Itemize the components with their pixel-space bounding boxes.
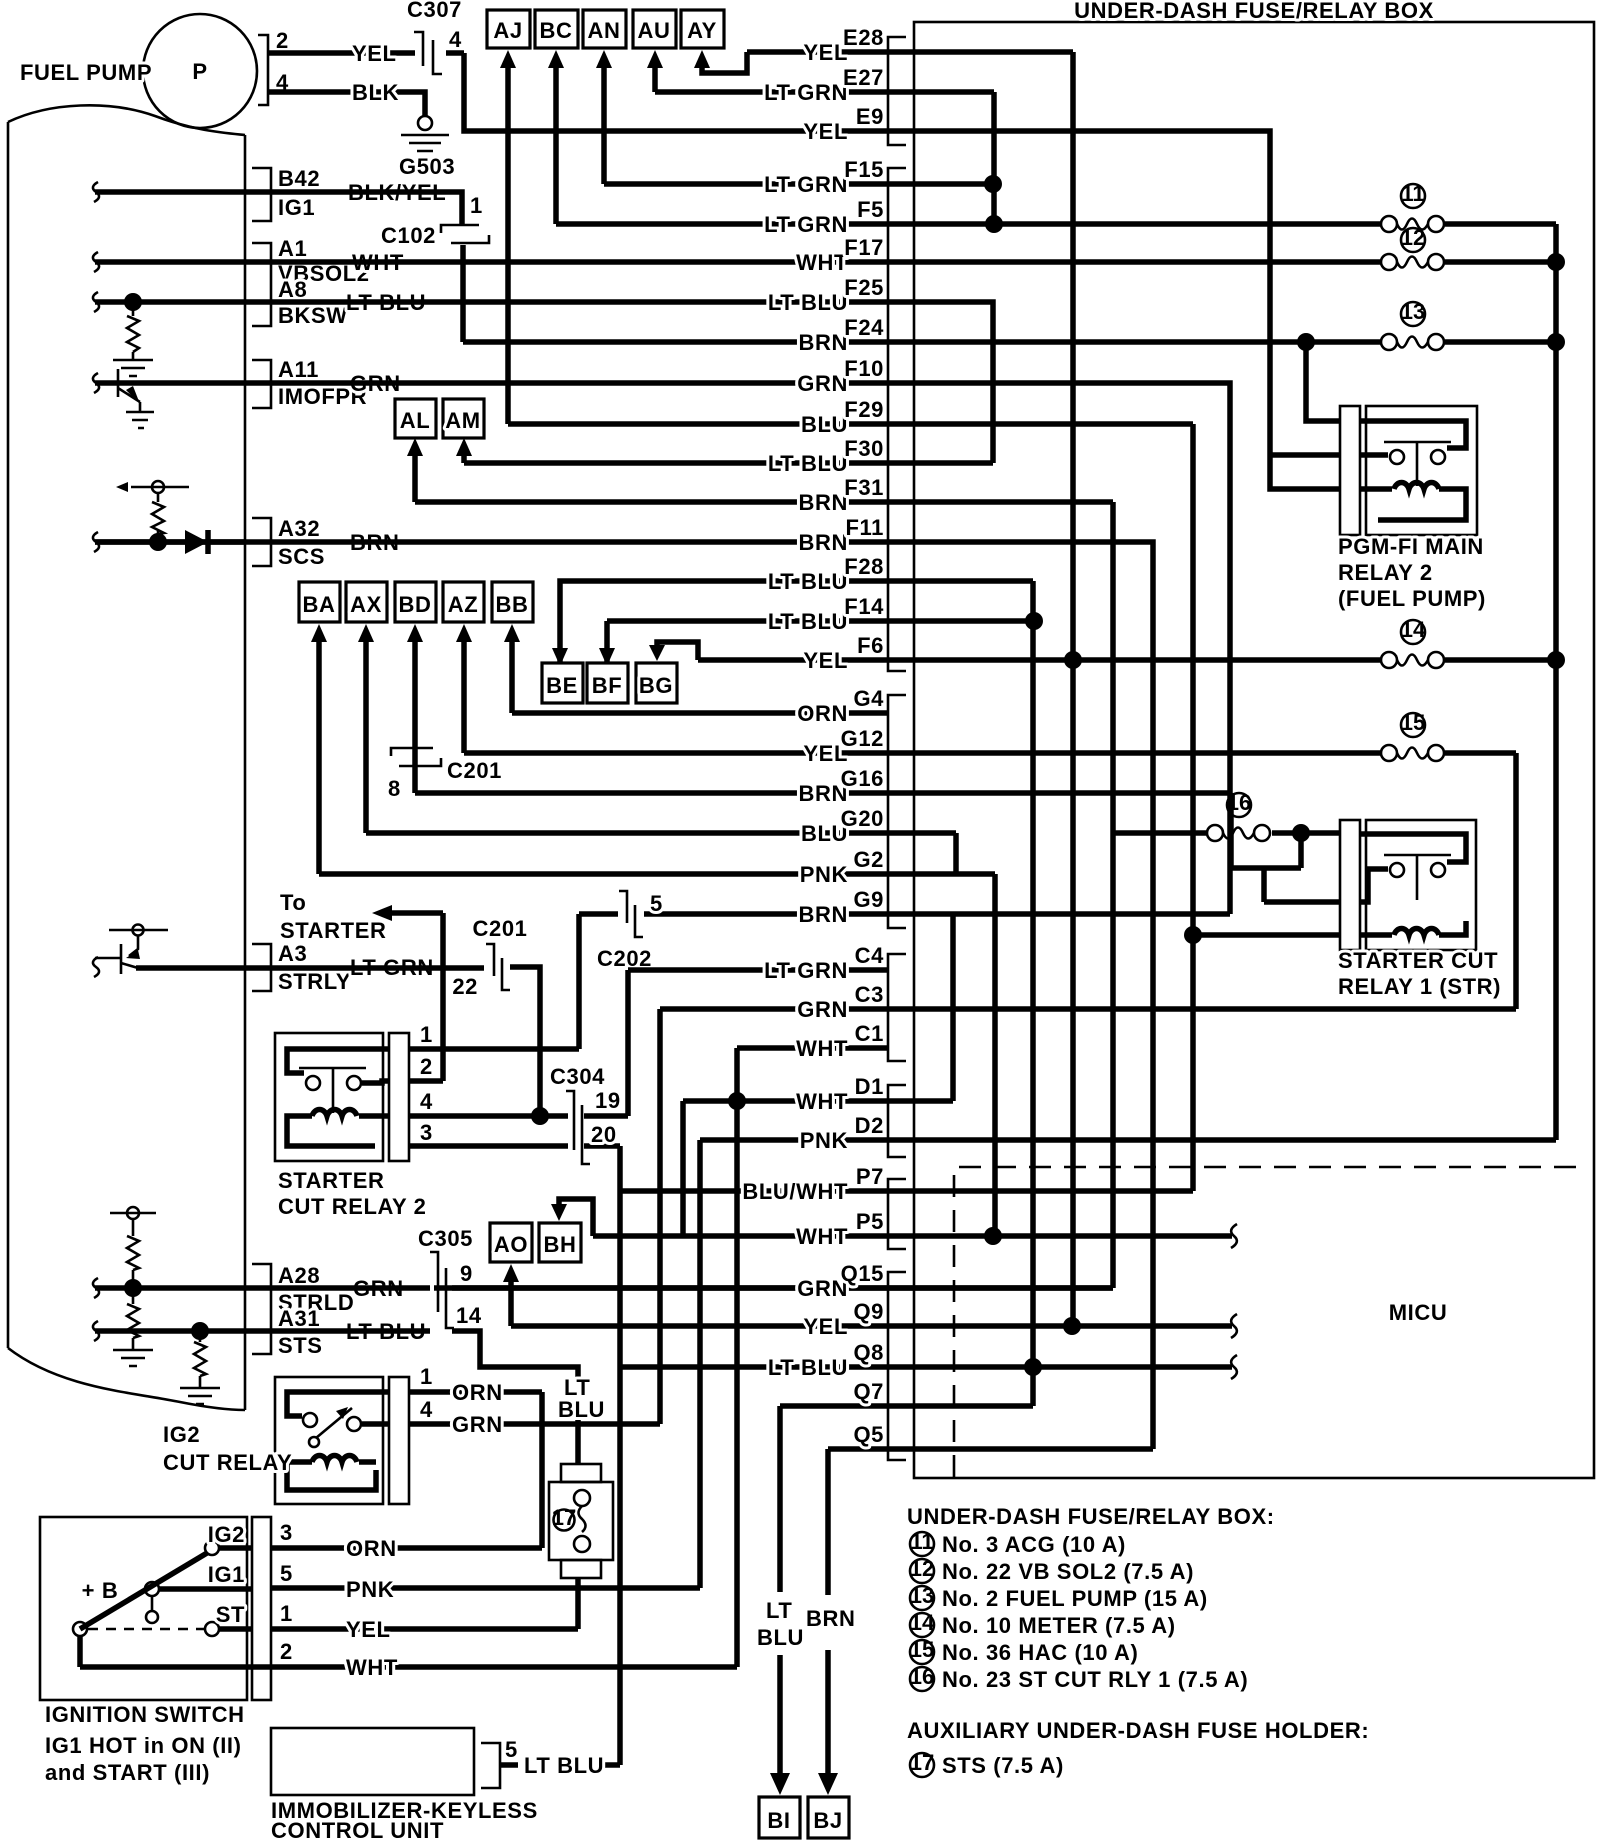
svg-text:LT BLU: LT BLU xyxy=(768,609,848,634)
wire net F24 BRN row to fuse 13 xyxy=(463,342,1548,421)
wire break mark at ECM stub xyxy=(93,252,99,272)
wire YEL fuel pump pin2 xyxy=(268,50,464,56)
svg-text:BLU: BLU xyxy=(801,412,848,437)
wire F30 row to AM arrow xyxy=(464,454,993,463)
svg-text:and START (III): and START (III) xyxy=(45,1760,210,1785)
immobilizer-keyless control unit box xyxy=(271,1728,474,1795)
svg-text:LT GRN: LT GRN xyxy=(764,212,848,237)
svg-text:GRN: GRN xyxy=(452,1412,503,1437)
svg-text:1: 1 xyxy=(280,1601,293,1626)
svg-text:G12: G12 xyxy=(841,726,884,751)
svg-text:9: 9 xyxy=(460,1261,473,1286)
svg-text:ORN: ORN xyxy=(346,1536,397,1561)
fuel pump motor circle xyxy=(143,14,257,128)
wire net C304-20 vertical to P7 and immobilizer xyxy=(596,1146,620,1765)
connector C307 xyxy=(414,32,442,74)
starter cut relay 1 connector xyxy=(1340,820,1360,950)
svg-text:STARTER CUT: STARTER CUT xyxy=(1338,948,1498,973)
resistor to ground at A31 xyxy=(194,1331,206,1388)
svg-text:GRN: GRN xyxy=(797,371,848,396)
svg-text:16: 16 xyxy=(1227,790,1251,815)
svg-text:No. 36 HAC (10 A): No. 36 HAC (10 A) xyxy=(942,1640,1138,1665)
wire net F31 to fuse16 tap to Q15 xyxy=(434,502,1207,1288)
wire net G4 ORN to BB xyxy=(512,640,888,713)
svg-text:5: 5 xyxy=(505,1737,518,1762)
svg-text:LT BLU: LT BLU xyxy=(768,290,848,315)
svg-text:F10: F10 xyxy=(844,356,884,381)
terminal box BB xyxy=(492,582,533,622)
svg-text:LT BLU: LT BLU xyxy=(768,1355,848,1380)
wire Q7 row and down to BI xyxy=(780,1406,1033,1786)
svg-text:12: 12 xyxy=(1401,225,1425,250)
arrow into BI xyxy=(770,1773,790,1795)
svg-text:BRN: BRN xyxy=(799,330,848,355)
fuse 15 No.36 HAC xyxy=(1381,745,1397,761)
starter cut relay 2 coil xyxy=(287,1109,390,1146)
wire net C4 LT GRN to C304 pin19 xyxy=(584,970,888,1116)
svg-text:P: P xyxy=(192,59,207,84)
connector bracket group G xyxy=(888,695,906,928)
wire net C3 GRN row to Q8 jog xyxy=(409,1009,1516,1424)
wire net E27 LT GRN to AU F15 F5 xyxy=(655,64,994,224)
svg-text:A28: A28 xyxy=(278,1263,320,1288)
svg-text:A8: A8 xyxy=(278,277,307,302)
svg-text:C201: C201 xyxy=(473,916,528,941)
svg-text:YEL: YEL xyxy=(803,1314,848,1339)
junction dot xyxy=(124,1279,142,1297)
connector bracket group Q xyxy=(888,1272,906,1460)
svg-text:15: 15 xyxy=(910,1637,934,1662)
svg-text:AO: AO xyxy=(494,1232,528,1257)
svg-text:No. 10 METER (7.5 A): No. 10 METER (7.5 A) xyxy=(942,1613,1176,1638)
terminal box AY xyxy=(681,10,724,48)
svg-text:LT GRN: LT GRN xyxy=(764,80,848,105)
arrow into BJ xyxy=(818,1773,838,1795)
terminal box AZ xyxy=(443,582,484,622)
svg-text:2: 2 xyxy=(276,28,289,53)
svg-text:PNK: PNK xyxy=(800,862,848,887)
fuse 12 No.22 VB SOL2 xyxy=(1381,254,1397,270)
svg-text:ST: ST xyxy=(216,1602,245,1627)
terminal box AN xyxy=(583,10,626,48)
svg-text:No. 22 VB SOL2 (7.5 A): No. 22 VB SOL2 (7.5 A) xyxy=(942,1559,1194,1584)
junction dot xyxy=(1063,1317,1081,1335)
svg-text:STS: STS xyxy=(278,1333,323,1358)
svg-text:IGNITION SWITCH: IGNITION SWITCH xyxy=(45,1702,245,1727)
svg-text:IG1: IG1 xyxy=(278,195,315,220)
svg-text:14: 14 xyxy=(1401,617,1426,642)
svg-text:No. 3 ACG (10 A): No. 3 ACG (10 A) xyxy=(942,1532,1126,1557)
IG2 cut relay box xyxy=(275,1377,383,1504)
connector C305 xyxy=(430,1252,454,1328)
svg-text:BH: BH xyxy=(544,1232,577,1257)
wire net G9 BRN via C202 to relay2 pin1 xyxy=(409,914,579,1049)
wire break mark MICU row end xyxy=(1231,1224,1237,1248)
svg-text:RELAY 1 (STR): RELAY 1 (STR) xyxy=(1338,974,1501,999)
switch resistor chain at A28 xyxy=(110,1213,156,1350)
svg-text:C3: C3 xyxy=(855,982,884,1007)
terminal box BJ xyxy=(808,1797,849,1838)
starter cut relay 2 switch xyxy=(287,1049,390,1073)
svg-text:YEL: YEL xyxy=(352,41,397,66)
svg-text:1: 1 xyxy=(470,193,483,218)
svg-text:LT GRN: LT GRN xyxy=(764,172,848,197)
svg-text:STS (7.5 A): STS (7.5 A) xyxy=(942,1753,1064,1778)
svg-text:19: 19 xyxy=(595,1088,621,1113)
svg-text:A3: A3 xyxy=(278,941,307,966)
transistor at A11 IMOFPR xyxy=(118,369,140,412)
fuse 11 No.3 ACG xyxy=(1381,216,1397,232)
svg-text:15: 15 xyxy=(1401,710,1425,735)
svg-text:BLU/WHT: BLU/WHT xyxy=(742,1179,848,1204)
svg-text:FUEL PUMP: FUEL PUMP xyxy=(20,60,152,85)
svg-text:F30: F30 xyxy=(844,436,884,461)
svg-text:F28: F28 xyxy=(844,554,884,579)
wire break mark MICU row end xyxy=(1231,1355,1237,1379)
connector C304 xyxy=(566,1091,590,1164)
svg-text:STRLY: STRLY xyxy=(278,969,351,994)
wire break mark at ECM stub xyxy=(93,292,99,312)
wire break mark at ECM stub xyxy=(93,532,99,552)
junction dot xyxy=(1064,651,1082,669)
svg-text:11: 11 xyxy=(1401,181,1424,206)
junction dot xyxy=(984,1227,1002,1245)
svg-text:LT BLU: LT BLU xyxy=(768,451,848,476)
svg-text:11: 11 xyxy=(910,1529,933,1554)
connector C202 xyxy=(619,891,643,937)
fuel pump connector bracket xyxy=(258,35,268,105)
immobilizer connector xyxy=(481,1743,500,1788)
fuse 13 No.2 FUEL PUMP xyxy=(1381,334,1397,350)
wire net F15 LT GRN to AN xyxy=(604,64,994,184)
svg-text:1: 1 xyxy=(420,1364,433,1389)
svg-text:BE: BE xyxy=(546,673,578,698)
svg-text:22: 22 xyxy=(452,974,478,999)
svg-text:C4: C4 xyxy=(855,943,884,968)
svg-text:BRN: BRN xyxy=(806,1606,855,1631)
ignition internal wires xyxy=(80,1548,252,1667)
terminal box BH xyxy=(539,1223,581,1262)
wire break mark at ECM stub xyxy=(93,182,99,202)
svg-text:MICU: MICU xyxy=(1389,1300,1448,1325)
wire net E9 YEL pump-to-PGMFI relay xyxy=(464,53,1340,489)
wire net F5 to BC fuse11 right bus D2 xyxy=(556,64,1556,1140)
svg-text:P7: P7 xyxy=(856,1164,884,1189)
svg-text:A11: A11 xyxy=(278,357,319,382)
svg-text:3: 3 xyxy=(420,1120,433,1145)
svg-text:BRN: BRN xyxy=(799,490,848,515)
svg-text:C307: C307 xyxy=(407,0,462,22)
ignition switch connector xyxy=(252,1517,271,1700)
wire net F17 WHT row A1 to fuse 12 xyxy=(95,259,1548,265)
wire Q5 down to BJ xyxy=(825,1449,831,1786)
ground G503 xyxy=(418,116,432,130)
wire BLK/YEL B42 through C102 to F24 xyxy=(95,192,463,342)
terminal box AU xyxy=(633,10,676,48)
svg-text:F5: F5 xyxy=(857,197,884,222)
starter cut relay 1 coil xyxy=(1360,921,1466,935)
terminal box BI xyxy=(759,1797,800,1838)
ECM connector edge xyxy=(244,135,247,1410)
svg-text:A1: A1 xyxy=(278,236,307,261)
svg-text:AUXILIARY UNDER-DASH FUSE HOLD: AUXILIARY UNDER-DASH FUSE HOLDER: xyxy=(907,1718,1369,1743)
svg-text:G4: G4 xyxy=(853,686,884,711)
svg-text:F6: F6 xyxy=(857,633,884,658)
svg-text:ORN: ORN xyxy=(452,1380,503,1405)
wire net F10 GRN A11 to G9 row xyxy=(95,383,1230,914)
svg-text:14: 14 xyxy=(910,1610,935,1635)
ECM pin bracket A11 xyxy=(252,360,271,408)
terminal box AJ xyxy=(487,10,530,48)
terminal box BF xyxy=(587,663,628,703)
svg-text:2: 2 xyxy=(280,1639,293,1664)
svg-text:C305: C305 xyxy=(418,1226,473,1251)
wire net G16 BRN to BD and relay1 switch xyxy=(415,640,1340,902)
svg-text:17: 17 xyxy=(552,1505,576,1530)
svg-text:UNDER-DASH FUSE/RELAY BOX:: UNDER-DASH FUSE/RELAY BOX: xyxy=(907,1504,1275,1529)
connector bracket group D xyxy=(888,1085,906,1157)
junction dot xyxy=(1292,824,1310,842)
svg-text:Q7: Q7 xyxy=(853,1379,884,1404)
svg-text:8: 8 xyxy=(388,776,401,801)
svg-text:BRN: BRN xyxy=(799,902,848,927)
svg-text:WHT: WHT xyxy=(796,1036,848,1061)
wire net E28 YEL AY elbow to F6 Q9 xyxy=(511,52,1232,1326)
svg-text:2: 2 xyxy=(420,1054,433,1079)
svg-text:SCS: SCS xyxy=(278,544,325,569)
wire relay2 pin3 BLU-WHT to C304 pin20 xyxy=(409,1143,620,1149)
terminal box AO xyxy=(490,1223,532,1262)
svg-text:PNK: PNK xyxy=(800,1128,848,1153)
ignition IG1 tap xyxy=(151,1596,154,1612)
ECM pin bracket A3 xyxy=(252,944,271,991)
svg-text:B42: B42 xyxy=(278,166,320,191)
wire net G20 BLU to AX jog G2 fuse16 xyxy=(319,640,1340,1236)
wire Q9 up to AO arrow xyxy=(508,1280,514,1326)
wire net C1 WHT to ignition WHT row xyxy=(80,1048,888,1667)
wire net G9 tap down to D1 xyxy=(683,914,953,1101)
svg-text:CUT RELAY: CUT RELAY xyxy=(163,1450,292,1475)
svg-text:AY: AY xyxy=(687,18,717,43)
ECM pin bracket A28-A31 xyxy=(252,1264,271,1354)
junction dot xyxy=(1297,333,1315,351)
svg-text:F24: F24 xyxy=(844,315,884,340)
svg-text:IG1: IG1 xyxy=(208,1562,245,1587)
svg-text:C1: C1 xyxy=(855,1021,884,1046)
wire net G12 YEL to AZ fuse15 xyxy=(464,640,1516,1009)
terminal box BA xyxy=(299,582,340,622)
svg-text:BKSW: BKSW xyxy=(278,303,348,328)
svg-text:Q15: Q15 xyxy=(841,1261,884,1286)
wire net P5 WHT row with BH elbow xyxy=(559,1199,1232,1236)
connector bracket group E xyxy=(888,37,906,145)
IG2 cut relay coil xyxy=(287,1455,376,1490)
PGM-FI relay 2 switch xyxy=(1360,421,1466,448)
connector C201 pin8 on BD wire xyxy=(391,748,441,766)
switch contact above A32 xyxy=(131,487,189,542)
svg-text:BLU: BLU xyxy=(757,1625,804,1650)
svg-text:WHT: WHT xyxy=(346,1655,398,1680)
svg-text:F29: F29 xyxy=(844,397,884,422)
wire A32 SCS row xyxy=(95,539,245,545)
svg-text:YEL: YEL xyxy=(803,648,848,673)
svg-text:WHT: WHT xyxy=(796,250,848,275)
svg-text:C304: C304 xyxy=(550,1064,605,1089)
fuse 17 STS holder xyxy=(561,1464,601,1482)
svg-text:BA: BA xyxy=(303,592,336,617)
junction dot xyxy=(531,1107,549,1125)
wire To STARTER arrow from relay2 pin2 xyxy=(390,913,443,1081)
svg-text:GRN: GRN xyxy=(797,997,848,1022)
wire immobilizer pin5 stub xyxy=(500,1762,518,1768)
terminal box BG xyxy=(636,663,677,703)
IG2 cut relay connector xyxy=(389,1377,409,1504)
svg-text:To: To xyxy=(280,890,306,915)
wire net D2 PNK to ignition PNK row xyxy=(271,1140,700,1588)
svg-text:5: 5 xyxy=(280,1561,293,1586)
wire break mark MICU row end xyxy=(1231,1314,1237,1338)
svg-text:IG2: IG2 xyxy=(208,1522,245,1547)
svg-text:5: 5 xyxy=(650,891,663,916)
svg-text:F14: F14 xyxy=(844,594,884,619)
junction dot xyxy=(191,1322,209,1340)
wire break mark at ECM stub xyxy=(93,957,99,977)
fuse 14 No.10 METER xyxy=(1381,652,1397,668)
starter cut relay 1 switch xyxy=(1360,834,1466,862)
wire net A32 F11 BRN to Q5 xyxy=(95,542,1153,1449)
terminal box AL xyxy=(395,399,436,438)
terminal box AX xyxy=(346,582,387,622)
svg-text:P5: P5 xyxy=(856,1209,884,1234)
svg-text:No. 23 ST CUT RLY 1 (7.5 A): No. 23 ST CUT RLY 1 (7.5 A) xyxy=(942,1667,1248,1692)
svg-text:F25: F25 xyxy=(844,275,884,300)
svg-text:YEL: YEL xyxy=(346,1617,391,1642)
svg-text:4: 4 xyxy=(420,1089,433,1114)
connector bracket group P xyxy=(888,1179,906,1249)
wire net A31 via C305 pin14 fuse17 to ignition YEL xyxy=(95,1331,578,1629)
ignition switch contacts xyxy=(205,1541,219,1555)
svg-text:AU: AU xyxy=(638,18,671,43)
ignition switch blade xyxy=(80,1553,207,1629)
junction dot xyxy=(985,215,1003,233)
svg-text:20: 20 xyxy=(591,1122,617,1147)
fuse 16 No.23 ST CUT RLY1 xyxy=(1207,825,1223,841)
transistor at A3 STRLY xyxy=(95,930,168,974)
svg-text:WHT: WHT xyxy=(796,1089,848,1114)
starter cut relay 1 box xyxy=(1366,820,1476,950)
svg-text:ORN: ORN xyxy=(797,701,848,726)
connector bracket group C xyxy=(888,954,906,1061)
svg-text:BF: BF xyxy=(592,673,623,698)
svg-text:F31: F31 xyxy=(844,475,884,500)
under-dash fuse/relay box outline xyxy=(914,22,1594,1478)
wire break mark at ECM stub xyxy=(93,1278,99,1298)
svg-text:AZ: AZ xyxy=(448,592,479,617)
starter cut relay 2 connector xyxy=(389,1033,409,1161)
svg-text:AM: AM xyxy=(445,408,480,433)
svg-text:14: 14 xyxy=(456,1303,482,1328)
wire net F29 BLU to AJ and P7 xyxy=(508,64,1340,1191)
svg-text:LT: LT xyxy=(766,1598,792,1623)
svg-text:A32: A32 xyxy=(278,516,320,541)
wire net A3 LT GRN via C201-22 to relay2 pin4 xyxy=(136,967,568,1116)
terminal box BE xyxy=(542,663,583,703)
PGM-FI main relay 2 box xyxy=(1366,406,1477,535)
svg-text:BJ: BJ xyxy=(813,1808,842,1833)
svg-text:G16: G16 xyxy=(841,766,884,791)
ECM pin bracket A1-A8 xyxy=(252,243,271,326)
svg-text:D2: D2 xyxy=(855,1113,884,1138)
wire net D1 down to P5 xyxy=(680,1101,686,1236)
wire net A28 GRN row via C305 pin9 to Q15 xyxy=(95,1285,1113,1291)
wire net G2 PNK to BA xyxy=(316,640,322,874)
svg-text:E27: E27 xyxy=(843,65,884,90)
ECM pin bracket B42 xyxy=(252,168,271,221)
svg-text:E9: E9 xyxy=(856,104,884,129)
svg-text:F17: F17 xyxy=(844,235,884,260)
svg-text:UNDER-DASH FUSE/RELAY BOX: UNDER-DASH FUSE/RELAY BOX xyxy=(1074,0,1434,23)
ECM housing outline xyxy=(8,105,245,1410)
wire IG2 relay pin1 ORN to ignition ORN row xyxy=(271,1392,542,1548)
svg-text:4: 4 xyxy=(449,27,462,52)
svg-text:BG: BG xyxy=(639,673,673,698)
svg-text:F11: F11 xyxy=(846,515,885,540)
wire BLK fuel pump pin4 xyxy=(268,92,425,116)
svg-text:STARTER: STARTER xyxy=(280,918,386,943)
svg-text:BRN: BRN xyxy=(799,530,848,555)
svg-text:(FUEL PUMP): (FUEL PUMP) xyxy=(1338,586,1486,611)
svg-text:PGM-FI MAIN: PGM-FI MAIN xyxy=(1338,534,1484,559)
svg-text:WHT: WHT xyxy=(796,1224,848,1249)
svg-text:STARTER: STARTER xyxy=(278,1168,384,1193)
junction dot xyxy=(728,1092,746,1110)
svg-text:Q5: Q5 xyxy=(853,1422,884,1447)
svg-text:IG1 HOT in ON (II): IG1 HOT in ON (II) xyxy=(45,1733,242,1758)
wire F31 row to AL arrow xyxy=(415,454,1113,502)
svg-text:13: 13 xyxy=(910,1583,934,1608)
MICU dashed boundary xyxy=(954,1167,1578,1477)
svg-text:G20: G20 xyxy=(841,806,884,831)
wire break mark at ECM stub xyxy=(93,373,99,393)
svg-text:PNK: PNK xyxy=(346,1577,394,1602)
IG2 cut relay switch xyxy=(287,1392,390,1416)
svg-text:13: 13 xyxy=(1401,299,1425,324)
connector bracket group F xyxy=(888,168,906,671)
terminal box AM xyxy=(443,399,484,438)
svg-text:G503: G503 xyxy=(399,154,455,179)
junction dot xyxy=(984,175,1002,193)
svg-text:IG2: IG2 xyxy=(163,1422,200,1447)
svg-text:YEL: YEL xyxy=(803,119,848,144)
junction dot xyxy=(1547,253,1565,271)
wire net F25-F30 LT BLU A8 xyxy=(95,302,993,463)
svg-text:C201: C201 xyxy=(447,758,502,783)
ignition switch box xyxy=(40,1517,247,1700)
wire net F6 YEL row BG feed and fuse14 xyxy=(657,642,1556,660)
svg-text:A31: A31 xyxy=(278,1306,320,1331)
connector C102 xyxy=(441,225,489,243)
svg-text:AN: AN xyxy=(588,18,621,43)
svg-text:E28: E28 xyxy=(843,25,884,50)
svg-text:LT BLU: LT BLU xyxy=(524,1753,604,1778)
svg-text:YEL: YEL xyxy=(803,40,848,65)
svg-text:CONTROL UNIT: CONTROL UNIT xyxy=(271,1818,444,1840)
svg-text:G9: G9 xyxy=(853,887,884,912)
diode on A32 row xyxy=(185,530,208,554)
junction dot xyxy=(124,293,142,311)
svg-text:12: 12 xyxy=(910,1556,934,1581)
svg-text:Q9: Q9 xyxy=(853,1299,884,1324)
